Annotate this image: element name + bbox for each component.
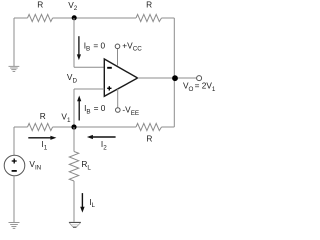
wire VIN top lead — [13, 127, 15, 155]
node output junction dot — [172, 75, 178, 81]
wire +VCC stub — [117, 49, 119, 66]
wire right vertical rail — [173, 18, 175, 127]
ground G1 (top-left) — [9, 66, 20, 71]
wire top rail right segment — [162, 17, 175, 19]
source VIN minus mark — [12, 170, 17, 172]
wire top rail middle segment — [53, 17, 136, 19]
wire bottom rail left segment — [14, 126, 28, 128]
wire to op-amp inverting input — [74, 66, 104, 68]
current arrow IL (downward) — [80, 193, 84, 213]
current arrow IB (bottom, upward) — [77, 96, 81, 121]
wire RL bottom lead — [73, 181, 75, 222]
ground G2 (bottom-left) — [9, 223, 20, 229]
terminal -VEE circle — [116, 108, 121, 113]
resistor RL (vertical) — [69, 152, 78, 182]
current arrow I1 (rightward) — [28, 136, 56, 140]
wire -VEE stub — [117, 89, 119, 108]
op-amp U1 triangle — [104, 59, 137, 96]
wire left drop to ground — [13, 18, 15, 66]
op-amp U1 plus sign — [107, 86, 111, 90]
wire to op-amp non-inverting input — [74, 88, 104, 90]
resistor R3 (bottom-left R) — [28, 123, 53, 130]
ground G3 (under RL) — [69, 222, 81, 227]
resistor R4 (bottom-right R) — [136, 123, 162, 130]
op-amp U1 minus sign — [107, 67, 112, 69]
wire VIN bottom lead — [13, 176, 15, 222]
current arrow IB (top, downward) — [77, 36, 81, 60]
node V1 junction dot — [71, 124, 76, 129]
wire top rail left segment — [14, 17, 28, 19]
wire op-amp output — [138, 77, 197, 79]
wire bottom rail right segment — [162, 126, 175, 128]
svg-text:R: R — [40, 111, 46, 121]
source VIN plus mark — [12, 159, 17, 164]
terminal +VCC circle — [115, 44, 120, 49]
terminal VO circle — [197, 76, 202, 81]
resistor R2 (top-right R) — [136, 14, 162, 21]
wire V1 branch up — [73, 89, 75, 127]
wire V2 branch down — [73, 18, 75, 67]
svg-text:R: R — [37, 0, 43, 9]
current arrow I2 (leftward) — [87, 135, 116, 139]
node V2 junction dot — [72, 15, 77, 20]
wire bottom rail middle segment — [53, 126, 136, 128]
wire RL top lead — [73, 127, 75, 152]
source VIN circle — [4, 155, 25, 176]
resistor R1 (top-left R) — [28, 14, 53, 21]
svg-text:R: R — [146, 0, 152, 10]
svg-text:R: R — [146, 133, 152, 143]
